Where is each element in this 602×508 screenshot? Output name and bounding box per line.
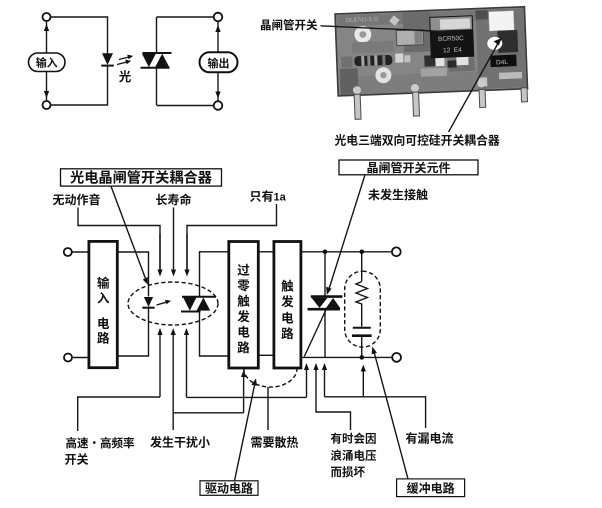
- node dot: [323, 250, 328, 255]
- mid bus: [187, 396, 307, 398]
- pin 1: [354, 94, 361, 119]
- wire: [72, 251, 89, 253]
- pointer 无动作音: [78, 208, 160, 272]
- light arrows: [119, 57, 130, 60]
- pointer from box to triac: [329, 175, 366, 291]
- resistor R: [354, 55, 392, 66]
- label box 晶闸管开关元件: [339, 160, 478, 175]
- hole 2: [375, 67, 392, 84]
- pad: [341, 56, 352, 67]
- svg-text:晶闸管开关元件: 晶闸管开关元件: [366, 159, 450, 176]
- svg-text:光电晶闸管开关耦合器: 光电晶闸管开关耦合器: [70, 167, 212, 187]
- node dot: [360, 355, 365, 360]
- light arrow inside: [157, 302, 168, 305]
- svg-text:路: 路: [97, 328, 110, 347]
- capacitor C: [396, 30, 424, 46]
- output terminal top: [392, 247, 401, 256]
- output oval 输出: [200, 52, 238, 72]
- snubber dashed outline: [345, 271, 381, 347]
- svg-text:开关: 开关: [65, 451, 89, 468]
- label box 缓冲电路: [397, 479, 465, 497]
- input terminal top: [64, 248, 72, 256]
- label box 光电晶闸管开关耦合器: [61, 169, 222, 186]
- top rail to output: [301, 251, 392, 253]
- pointer line to IC: [321, 26, 445, 32]
- wire: [46, 72, 48, 102]
- wire: [217, 73, 219, 102]
- main triac Q: [311, 295, 343, 298]
- PCB board: [335, 7, 528, 96]
- wires between boxes: [258, 251, 274, 253]
- triac IC: [429, 15, 474, 58]
- solder strip: [499, 72, 522, 79]
- pointer 发生干扰小: [173, 412, 243, 414]
- wire bottom from LED: [51, 67, 108, 106]
- arrow up to T3: [215, 25, 220, 32]
- pin 4: [521, 88, 528, 102]
- LED inside coupler: [144, 297, 153, 307]
- svg-text:缓冲电路: 缓冲电路: [407, 479, 455, 496]
- svg-text:入: 入: [97, 288, 110, 307]
- svg-text:DL8741-5 G: DL8741-5 G: [346, 17, 379, 24]
- svg-text:路: 路: [281, 323, 294, 342]
- wire box to LED top: [117, 252, 148, 297]
- svg-text:长寿命: 长寿命: [156, 191, 192, 208]
- svg-text:发生干扰小: 发生干扰小: [150, 434, 210, 451]
- arrow up to T1: [44, 24, 49, 31]
- arrow up into oval bottom left: [159, 333, 161, 397]
- svg-text:D4L: D4L: [496, 59, 509, 66]
- svg-text:BCR50C: BCR50C: [438, 35, 464, 43]
- bottom rail: [301, 356, 392, 358]
- dashed arc drive group: [244, 369, 297, 388]
- svg-text:无动作音: 无动作音: [53, 191, 101, 208]
- LED D1: [102, 53, 113, 65]
- box 输入电路: [89, 241, 117, 367]
- svg-text:未发生接触: 未发生接触: [368, 186, 428, 203]
- svg-text:有时会因: 有时会因: [331, 431, 377, 447]
- mark 4: [389, 15, 400, 26]
- wire 无动作音 drop into oval: [159, 234, 161, 272]
- pin 2: [413, 92, 420, 116]
- svg-text:输出: 输出: [208, 55, 230, 71]
- snubber branch wire: [361, 252, 363, 282]
- label box 驱动电路: [200, 481, 258, 496]
- svg-text:输入: 输入: [36, 55, 58, 71]
- svg-text:浪涌电压: 浪涌电压: [331, 448, 377, 464]
- pin pads: [353, 86, 361, 94]
- wire 只有1a drop into oval: [186, 234, 188, 272]
- node dot: [360, 250, 365, 255]
- terminal T2 bottom-left: [43, 101, 51, 109]
- dark trace left: [352, 41, 394, 54]
- box 触发电路: [274, 242, 301, 369]
- right bus 有漏电流: [324, 368, 326, 397]
- arrow up into oval bottom middle: [172, 333, 174, 430]
- resistor R (zigzag): [356, 282, 367, 327]
- box 过零触发电路: [229, 242, 258, 369]
- wire: [46, 21, 48, 53]
- svg-text:12 E4: 12 E4: [443, 47, 462, 55]
- pointer 长寿命: [173, 208, 175, 272]
- terminal T1 top-left: [43, 13, 51, 21]
- wire triac up: [200, 252, 229, 297]
- svg-text:光: 光: [119, 66, 132, 85]
- wire: [72, 357, 89, 359]
- hole 1: [354, 26, 371, 43]
- svg-text:路: 路: [237, 337, 250, 356]
- flash highlight: [487, 37, 502, 51]
- svg-text:只有1a: 只有1a: [250, 188, 287, 205]
- pointer 只有1a: [187, 204, 277, 272]
- gate line: [304, 310, 326, 357]
- photo coupler (white): [489, 11, 515, 31]
- svg-text:驱动电路: 驱动电路: [205, 479, 253, 496]
- svg-text:需要散热: 需要散热: [251, 434, 299, 451]
- svg-text:有漏电流: 有漏电流: [406, 430, 454, 447]
- input terminal bottom: [64, 354, 72, 362]
- pointer 缓冲电路: [374, 351, 408, 479]
- pointer 需要散热: [267, 387, 269, 430]
- pointer 高速: [78, 397, 160, 431]
- pointer arrow to coupler: [449, 43, 499, 133]
- pointer 驱动电路: [235, 383, 256, 481]
- input oval 输入: [29, 53, 66, 72]
- pointer 有时会因: [316, 368, 351, 431]
- terminal T3 top-right: [214, 13, 223, 22]
- pin 3: [479, 89, 486, 107]
- coupler dashed oval: [128, 282, 218, 325]
- small pads: [395, 53, 403, 62]
- terminal T4 bottom-right: [214, 101, 223, 110]
- arrow down to T4: [215, 92, 220, 99]
- diode D4L: [490, 55, 516, 67]
- output terminal bottom: [392, 353, 401, 362]
- svg-text:高速·高频率: 高速·高频率: [66, 435, 135, 451]
- triac branch wire: [324, 252, 326, 296]
- wire: [217, 22, 219, 53]
- wire triac down: [200, 312, 229, 357]
- svg-text:而损坏: 而损坏: [331, 464, 366, 480]
- arrow up into oval bottom right: [186, 333, 188, 397]
- coupler triac: [182, 296, 216, 298]
- arrow down to T2: [44, 91, 49, 98]
- wire to right terminals: [157, 16, 215, 18]
- wire box to LED bottom: [117, 309, 148, 357]
- triac TR1: [156, 17, 158, 53]
- wire top to LED: [51, 17, 108, 54]
- svg-text:光电三端双向可控硅开关耦合器: 光电三端双向可控硅开关耦合器: [335, 132, 500, 149]
- capacitor C: [353, 327, 371, 329]
- svg-text:晶闸管开关: 晶闸管开关: [260, 17, 318, 33]
- riser up to rail: [306, 368, 308, 398]
- pointer from box to coupler: [111, 186, 146, 280]
